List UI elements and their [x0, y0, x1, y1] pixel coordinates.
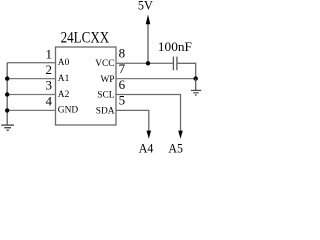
svg-text:SDA: SDA	[96, 107, 115, 117]
wire ground drop right	[195, 79, 197, 90]
wire pin5 SDA	[116, 110, 149, 132]
junction node WP	[194, 76, 198, 80]
svg-text:A1: A1	[58, 74, 70, 84]
wire pin3	[7, 94, 55, 96]
svg-text:24LCXX: 24LCXX	[61, 30, 110, 47]
svg-text:SCL: SCL	[97, 91, 114, 101]
wire pin1	[7, 62, 55, 64]
svg-text:GND: GND	[58, 106, 79, 116]
wire left bus vertical	[6, 63, 8, 125]
svg-text:A0: A0	[58, 58, 70, 68]
svg-text:2: 2	[46, 62, 53, 77]
arrowhead 5V up	[146, 15, 151, 25]
svg-text:A2: A2	[58, 90, 70, 100]
wire pin7 WP	[116, 78, 196, 80]
svg-text:8: 8	[119, 46, 126, 61]
wire pin4	[7, 109, 55, 111]
svg-text:4: 4	[46, 94, 53, 109]
junction node VCC	[146, 61, 150, 65]
svg-text:A4: A4	[139, 141, 154, 156]
svg-text:VCC: VCC	[95, 59, 114, 69]
wire 5V supply vertical	[147, 22, 149, 63]
svg-text:3: 3	[46, 78, 53, 93]
svg-text:A5: A5	[168, 141, 183, 156]
svg-text:100nF: 100nF	[158, 39, 192, 54]
ground GND1	[1, 125, 14, 130]
wire cap right lead	[177, 63, 196, 78]
capacitor C1 plates	[173, 57, 177, 71]
wire pin2	[7, 78, 55, 80]
junction node pin4	[5, 108, 9, 112]
IC body U1 24LCXX	[56, 47, 117, 125]
arrowhead SDA down	[147, 131, 152, 139]
wire pin8 VCC	[116, 62, 173, 64]
junction node pin2	[5, 76, 9, 80]
svg-text:5V: 5V	[138, 0, 154, 13]
arrowhead SCL down	[178, 131, 183, 139]
svg-text:WP: WP	[100, 75, 114, 85]
junction node pin3	[5, 92, 9, 96]
ground GND2	[191, 90, 201, 95]
svg-text:1: 1	[46, 47, 53, 62]
wire pin6 SCL	[116, 95, 181, 133]
